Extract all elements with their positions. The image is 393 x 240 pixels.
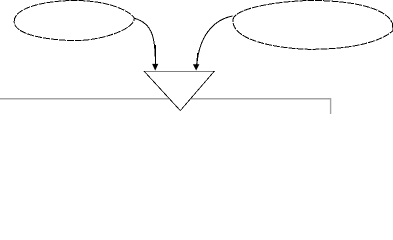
page border line (gray), horizontal then down right side — [0, 99, 331, 114]
arrowhead of left arrow — [152, 64, 158, 71]
arrowhead of right arrow — [193, 64, 200, 70]
curved arrow from right oval to triangle — [197, 16, 233, 65]
curved arrow from left oval to triangle — [134, 18, 155, 65]
right oval — [233, 1, 393, 50]
inverted triangle (funnel), white filled, occludes gray line — [144, 71, 214, 110]
left oval — [14, 0, 134, 40]
